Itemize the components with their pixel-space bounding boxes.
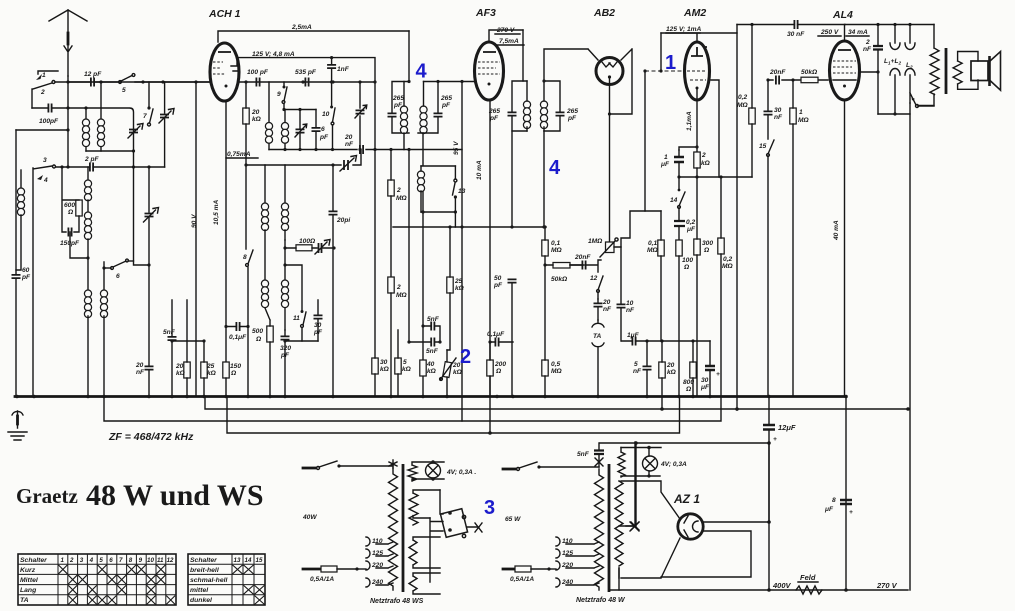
capacitor 5nF mains — [577, 443, 604, 467]
core 1 — [402, 464, 405, 592]
svg-text:0,2: 0,2 — [738, 94, 747, 101]
svg-text:5: 5 — [403, 359, 407, 366]
svg-text:2: 2 — [701, 152, 706, 159]
svg-text:5: 5 — [99, 557, 103, 564]
capacitor 12uF — [763, 397, 796, 523]
output transformer secondary — [953, 52, 978, 90]
wire line D y443 heater — [600, 442, 769, 444]
resistor 25k AF3 — [447, 227, 465, 350]
resistor 0,2M right — [718, 175, 734, 396]
svg-text:12 pF: 12 pF — [84, 71, 102, 78]
wire 20nF row — [269, 149, 462, 151]
svg-text:Kurz: Kurz — [20, 567, 36, 574]
svg-text:50kΩ: 50kΩ — [551, 276, 568, 283]
svg-text:3: 3 — [484, 497, 495, 519]
svg-text:10,5 mA: 10,5 mA — [213, 199, 220, 225]
svg-text:11: 11 — [293, 315, 300, 322]
node junctions top rail — [876, 23, 911, 26]
capacitor 50pF — [493, 225, 517, 396]
bottom bus — [610, 589, 908, 591]
svg-text:14: 14 — [245, 557, 252, 564]
svg-text:8: 8 — [129, 557, 133, 564]
IF2 secondary coil — [540, 81, 547, 131]
svg-text:400V: 400V — [772, 581, 792, 590]
resistor 100ohm AM2 — [676, 240, 694, 396]
svg-text:ACH 1: ACH 1 — [208, 8, 241, 20]
capacitor 100pF left — [32, 104, 134, 168]
svg-text:1,1mA: 1,1mA — [686, 111, 693, 131]
svg-text:breit-hell: breit-hell — [190, 567, 219, 574]
svg-text:265: 265 — [392, 95, 404, 102]
svg-text:30 nF: 30 nF — [787, 31, 805, 38]
svg-text:20: 20 — [666, 362, 675, 369]
capacitor 30pF — [313, 300, 323, 341]
node junctions antenna line — [66, 106, 69, 168]
svg-text:50: 50 — [494, 275, 502, 282]
wire grid return — [645, 71, 661, 211]
svg-text:13: 13 — [234, 557, 241, 564]
wire ACH1 cathode — [213, 102, 226, 362]
wire IF2 sec bottom down — [512, 131, 544, 227]
svg-text:40 mA: 40 mA — [833, 220, 840, 241]
svg-text:Schalter: Schalter — [20, 557, 47, 564]
resistor 50k grid — [801, 69, 818, 83]
svg-text:+: + — [716, 371, 720, 378]
tube AM2 — [683, 7, 710, 100]
primary winding 1 — [389, 468, 398, 590]
capacitor 30nF lower — [764, 80, 784, 139]
resistor 5k bottom — [395, 330, 412, 396]
resistor Feld — [796, 573, 822, 594]
IF1 secondary capacitor 265pF — [434, 80, 453, 133]
secondary HV winding — [615, 481, 623, 578]
svg-text:5nF: 5nF — [577, 451, 590, 458]
svg-text:AZ 1: AZ 1 — [673, 492, 700, 506]
tube ACH1 — [208, 8, 241, 101]
svg-text:15: 15 — [759, 143, 767, 150]
svg-text:5: 5 — [122, 87, 126, 94]
svg-text:Ω: Ω — [495, 368, 502, 375]
wire transformer bottom to bus — [618, 568, 620, 590]
svg-text:nF: nF — [603, 306, 612, 313]
wire line C y433 — [227, 397, 680, 434]
wire left branch — [16, 129, 68, 131]
svg-text:MΩ: MΩ — [722, 263, 733, 270]
svg-text:500: 500 — [252, 328, 263, 335]
svg-text:100Ω: 100Ω — [299, 238, 316, 245]
ground symbol — [8, 411, 27, 440]
svg-text:1μF: 1μF — [627, 332, 640, 339]
coil AF3 grid stopper — [417, 166, 424, 212]
svg-text:60: 60 — [22, 267, 30, 274]
switch 13 — [453, 166, 466, 227]
wire anode corner to bus A — [736, 33, 738, 410]
TA pickup — [592, 320, 604, 396]
switch 1/2 — [32, 71, 58, 108]
svg-text:40W: 40W — [302, 514, 317, 521]
capacitor 5nF pair — [407, 148, 441, 355]
svg-text:600: 600 — [64, 202, 75, 209]
resistor 1M AL4 — [790, 80, 810, 396]
fuse 0,5A/1A trafo2 — [503, 566, 556, 583]
wire AF3 cathode — [476, 102, 490, 433]
svg-text:2: 2 — [69, 557, 74, 564]
resistor 2k AM2 — [694, 152, 711, 177]
heater winding 4 — [409, 573, 440, 594]
svg-text:4: 4 — [549, 157, 561, 179]
svg-text:TA: TA — [593, 333, 602, 340]
svg-text:9: 9 — [277, 91, 281, 98]
svg-text:90 V: 90 V — [191, 214, 198, 228]
wire 8uF vertical — [824, 397, 853, 591]
field coil L2 — [905, 25, 915, 104]
svg-text:AB2: AB2 — [593, 7, 615, 19]
svg-text:270 V: 270 V — [876, 581, 898, 590]
svg-text:kΩ: kΩ — [402, 366, 412, 373]
svg-text:8: 8 — [832, 497, 836, 504]
svg-text:20: 20 — [251, 109, 260, 116]
svg-text:100pF: 100pF — [39, 118, 59, 125]
rotary light switch block — [430, 490, 482, 582]
svg-text:pF: pF — [319, 134, 329, 141]
tube AZ1 — [673, 492, 703, 539]
wire AM2 grid dash — [645, 70, 682, 72]
svg-text:30: 30 — [380, 359, 388, 366]
svg-text:Netztrafo 48 WS: Netztrafo 48 WS — [370, 598, 424, 605]
svg-text:2,5mA: 2,5mA — [291, 24, 312, 31]
svg-text:2 pF: 2 pF — [84, 156, 100, 163]
svg-text:MΩ: MΩ — [737, 102, 748, 109]
svg-text:30: 30 — [701, 377, 709, 384]
svg-text:kΩ: kΩ — [667, 369, 677, 376]
svg-text:8: 8 — [243, 254, 247, 261]
svg-text:10: 10 — [322, 111, 330, 118]
svg-text:nF: nF — [633, 368, 642, 375]
resistor 600ohm — [62, 167, 88, 258]
svg-text:2: 2 — [396, 187, 401, 194]
wire AL4 top — [844, 25, 846, 42]
primary winding 2 — [595, 469, 604, 590]
table 1 X marks — [59, 565, 176, 604]
table 1 switch matrix — [18, 554, 176, 605]
wire AB2 right diode loop — [610, 49, 633, 114]
IF transformer 2 primary capacitor 265pF — [488, 81, 527, 131]
svg-text:1: 1 — [664, 154, 668, 161]
wire line B y421 — [104, 397, 721, 422]
svg-text:200: 200 — [494, 361, 506, 368]
svg-text:AM2: AM2 — [683, 7, 706, 19]
capacitor 320pF — [280, 330, 318, 396]
IF2 primary coil — [523, 30, 531, 131]
resistor 0,1M AM2 — [647, 211, 664, 341]
capacitor 0,1uF left — [224, 322, 249, 341]
resistor 0,1M left — [542, 225, 563, 265]
svg-text:12: 12 — [167, 557, 174, 564]
svg-text:nF: nF — [626, 307, 635, 314]
capacitor 20nF left — [135, 362, 154, 396]
wire ACH1 anode to top — [218, 31, 409, 42]
svg-text:20pi: 20pi — [336, 217, 350, 224]
coil pair bandfilter mid — [261, 165, 288, 280]
svg-text:Schalter: Schalter — [190, 557, 217, 564]
svg-text:6: 6 — [321, 126, 325, 133]
text 95V line — [453, 80, 464, 421]
wire AZ1 anode loop — [661, 531, 751, 577]
switch mains 2 — [503, 468, 516, 471]
svg-text:25: 25 — [206, 363, 215, 370]
svg-text:Ω: Ω — [683, 264, 690, 271]
svg-text:Ω: Ω — [255, 336, 262, 343]
text 125V 1mA — [666, 26, 702, 33]
svg-text:20nF: 20nF — [769, 69, 786, 76]
variable capacitor trim — [159, 82, 174, 167]
resistor 30k bottom — [372, 148, 390, 396]
svg-text:4: 4 — [416, 61, 428, 83]
svg-text:0,75mA: 0,75mA — [227, 151, 251, 158]
svg-text:12: 12 — [590, 275, 598, 282]
svg-text:0,1μF: 0,1μF — [487, 331, 505, 338]
svg-text:2: 2 — [865, 39, 870, 46]
wire bottom rail speaker — [878, 113, 910, 115]
capacitor 30uF electrolytic — [700, 341, 720, 396]
svg-text:0,5: 0,5 — [551, 361, 560, 368]
potentiometer 1M — [588, 211, 645, 257]
variable capacitor right of 10 — [355, 82, 367, 150]
svg-text:μF: μF — [824, 506, 834, 513]
table 2 X marks — [233, 565, 265, 604]
wire AZ1 supply vertical — [768, 445, 770, 590]
svg-text:MΩ: MΩ — [647, 247, 658, 254]
capacitor 5nF left — [163, 300, 204, 396]
svg-text:AL4: AL4 — [832, 9, 853, 21]
wire AF3 anode top — [489, 30, 523, 41]
tube AF3 — [475, 7, 504, 100]
svg-text:Lang: Lang — [20, 587, 37, 594]
wire AM2 cathode — [679, 89, 699, 152]
svg-text:20: 20 — [135, 362, 144, 369]
wire IF1 sec bottom down — [421, 133, 455, 396]
node junctions y227 — [448, 225, 451, 228]
svg-text:9: 9 — [139, 557, 143, 564]
svg-text:265: 265 — [488, 108, 500, 115]
switch 5 — [119, 74, 209, 94]
capacitor 12pF — [68, 71, 118, 87]
svg-text:mittel: mittel — [190, 587, 208, 594]
svg-text:40: 40 — [426, 361, 435, 368]
svg-text:Ω: Ω — [703, 247, 710, 254]
wire AB2 cathode down — [609, 77, 611, 242]
switch 11 — [285, 310, 306, 341]
text 270V 7,5mA — [495, 27, 524, 45]
capacitor 6pF — [312, 110, 330, 150]
svg-text:3: 3 — [43, 157, 47, 164]
coil pair bandfilter low — [261, 280, 288, 330]
svg-text:MΩ: MΩ — [396, 195, 407, 202]
wire AM2 top — [661, 25, 737, 42]
svg-text:65 W: 65 W — [505, 516, 521, 523]
svg-text:4V; 0,3A .: 4V; 0,3A . — [446, 469, 476, 476]
coil mid left — [84, 167, 91, 260]
svg-text:0,2: 0,2 — [723, 256, 732, 263]
svg-text:Ω: Ω — [230, 370, 237, 377]
resistor 20k bottom AB2 — [659, 341, 677, 409]
output transformer core — [945, 48, 948, 94]
svg-text:pF: pF — [441, 102, 451, 109]
transformer 1 Netztrafo 48 WS — [302, 460, 495, 605]
loudspeaker — [971, 52, 1001, 91]
svg-text:2: 2 — [396, 284, 401, 291]
svg-text:pF: pF — [493, 282, 503, 289]
wire AZ1 heater frame — [621, 481, 680, 578]
svg-text:535 pF: 535 pF — [295, 69, 317, 76]
svg-text:ZF = 468/472 kHz: ZF = 468/472 kHz — [108, 431, 194, 443]
antenna — [49, 10, 87, 76]
svg-text:kΩ: kΩ — [701, 160, 711, 167]
heater winding 3 — [409, 537, 440, 568]
wire AM2 to AL4 grid row y80 — [768, 79, 828, 81]
svg-text:0,5A/1A: 0,5A/1A — [510, 576, 534, 583]
svg-text:5: 5 — [634, 361, 638, 368]
capacitor 1nF — [327, 56, 377, 106]
resistor 20k left — [175, 300, 190, 396]
switch mains 1 — [303, 467, 316, 470]
resistor 150ohm bottom — [223, 362, 242, 396]
svg-text:50kΩ: 50kΩ — [801, 69, 818, 76]
svg-text:95 V: 95 V — [453, 141, 460, 155]
svg-text:pF: pF — [21, 274, 31, 281]
svg-text:kΩ: kΩ — [252, 116, 262, 123]
node junction antenna — [66, 80, 361, 83]
svg-text:kΩ: kΩ — [380, 366, 390, 373]
svg-text:150: 150 — [230, 363, 241, 370]
svg-text:1: 1 — [61, 557, 65, 564]
svg-text:265: 265 — [440, 95, 452, 102]
svg-text:15: 15 — [256, 557, 263, 564]
svg-text:4: 4 — [43, 177, 48, 184]
capacitor 535pF — [295, 69, 317, 87]
svg-text:0,5A/1A: 0,5A/1A — [310, 576, 334, 583]
svg-text:Feld: Feld — [800, 573, 816, 582]
svg-text:Netztrafo 48 W: Netztrafo 48 W — [576, 597, 626, 604]
variable capacitor mid — [144, 167, 159, 365]
svg-text:34 mA: 34 mA — [848, 29, 868, 36]
resistor 2M lower — [388, 277, 408, 396]
svg-text:5nF: 5nF — [427, 316, 440, 323]
svg-text:5nF: 5nF — [163, 329, 176, 336]
resistor 25k bottom — [201, 339, 217, 396]
svg-text:Ω: Ω — [685, 386, 692, 393]
svg-text:MΩ: MΩ — [551, 247, 562, 254]
svg-text:6: 6 — [109, 557, 113, 564]
svg-text:0,1: 0,1 — [648, 240, 657, 247]
svg-text:nF: nF — [863, 46, 872, 53]
svg-text:4V; 0,3A: 4V; 0,3A — [660, 461, 687, 468]
svg-text:20nF: 20nF — [574, 254, 591, 261]
svg-text:20: 20 — [452, 362, 461, 369]
svg-text:+: + — [849, 509, 853, 516]
wire antenna feed down — [67, 76, 69, 167]
capacitor 150pF — [60, 228, 80, 248]
svg-text:μF: μF — [700, 384, 710, 391]
svg-text:Mittel: Mittel — [20, 577, 38, 584]
capacitor 60pF — [12, 130, 32, 396]
svg-text:μF: μF — [660, 161, 670, 168]
resistor 40k — [420, 360, 437, 376]
svg-text:nF: nF — [345, 141, 354, 148]
resistor 800ohm — [683, 341, 696, 396]
switch 14 — [670, 177, 685, 208]
svg-text:kΩ: kΩ — [427, 368, 437, 375]
svg-text:0,1μF: 0,1μF — [229, 334, 247, 341]
switch 6 — [102, 259, 133, 280]
svg-text:12μF: 12μF — [778, 423, 796, 432]
coil pair bandfilter 1 — [265, 82, 288, 150]
svg-text:20: 20 — [602, 299, 611, 306]
mains taps — [366, 537, 393, 546]
switch 10 — [322, 106, 335, 150]
wire right vertical from speaker down — [909, 103, 911, 590]
svg-text:kΩ: kΩ — [176, 370, 186, 377]
svg-text:125 V; 1mA: 125 V; 1mA — [666, 26, 702, 33]
resistor 0,5M — [542, 263, 563, 396]
svg-text:Graetz: Graetz — [16, 484, 78, 508]
capacitor 0,2uF — [674, 208, 696, 240]
switch 7 — [143, 82, 153, 126]
resistor 0,2M upper — [721, 23, 755, 177]
svg-text:20: 20 — [344, 134, 353, 141]
capacitor 30nF top — [737, 20, 845, 38]
wire y177 row — [679, 176, 719, 178]
tube AL4 — [830, 9, 860, 100]
svg-text:dunkel: dunkel — [190, 597, 212, 604]
svg-text:10 mA: 10 mA — [476, 160, 483, 180]
svg-text:+: + — [773, 436, 777, 443]
svg-text:schmal-hell: schmal-hell — [190, 577, 228, 584]
heater winding AZ1 lamp — [618, 448, 660, 478]
wire AM2 anode out — [711, 80, 719, 177]
IF transformer 1 primary coil — [400, 31, 410, 150]
svg-text:7: 7 — [119, 557, 123, 564]
variable capacitor bf1 — [295, 110, 307, 150]
svg-text:30: 30 — [774, 107, 782, 114]
svg-text:100: 100 — [682, 257, 693, 264]
wire center tap — [626, 443, 636, 526]
variable capacitor 7 area — [128, 124, 143, 139]
capacitor 1uF mid — [622, 332, 710, 346]
wire 90V line — [191, 82, 198, 396]
coil pair left top — [82, 82, 104, 151]
field coil L1+L2 — [884, 25, 901, 115]
lamp 2 4V 0,3A — [643, 448, 688, 478]
wire switch8 line down — [247, 267, 249, 396]
center tap X — [619, 522, 639, 530]
svg-text:11: 11 — [157, 557, 164, 564]
svg-text:250 V: 250 V — [820, 29, 839, 36]
svg-text:265: 265 — [566, 108, 578, 115]
svg-text:20: 20 — [175, 363, 184, 370]
svg-text:100 pF: 100 pF — [247, 69, 269, 76]
wire AZ1 cathode right — [704, 521, 769, 523]
svg-text:1: 1 — [799, 109, 803, 116]
svg-text:1: 1 — [42, 72, 46, 79]
resistor 100ohm horizontal — [283, 238, 335, 311]
wire line E y447 heater — [621, 447, 661, 449]
capacitor 20nF AB2 — [570, 254, 601, 272]
wire AL4 anode to speaker — [861, 71, 878, 73]
ground bus — [15, 395, 846, 398]
wire x133 column to row265 — [134, 167, 150, 265]
wire AL4 cathode down — [833, 100, 845, 396]
